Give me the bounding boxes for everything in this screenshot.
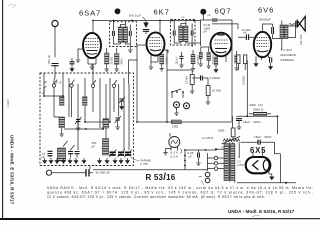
svg-text:C 765: C 765 — [140, 162, 148, 166]
6K7 internal electrodes — [150, 38, 162, 47]
output transformer T3 windings — [280, 25, 284, 39]
wave trap coil — [59, 117, 65, 128]
svg-text:UNDA - Modl. E 53/16, R 53: UNDA - Modl. E 53/16, R 53/17 — [10, 135, 15, 205]
6SA7 plate lead to bus — [92, 21, 94, 34]
svg-text:6X5: 6X5 — [250, 146, 266, 155]
svg-text:R 53/16: R 53/16 — [146, 172, 176, 183]
svg-text:µF: µF — [208, 14, 211, 17]
top B+ bus wire — [93, 20, 201, 22]
earth terminal — [46, 170, 51, 175]
svg-text:50000pF: 50000pF — [259, 17, 271, 21]
grid-cap dot of 6K7 — [115, 8, 121, 14]
variable capacitor section 3 — [125, 152, 131, 155]
antenna coil — [58, 148, 66, 161]
6X5 plate sleeve — [263, 160, 269, 171]
bypass cap near 6K7 — [180, 56, 184, 58]
screen resistor 50000 — [191, 54, 195, 63]
RF trimmer — [116, 118, 121, 120]
6V6 plate lead up — [263, 24, 273, 32]
RF coil top — [103, 119, 109, 129]
6Q7 load resistors — [214, 58, 218, 66]
T1 primary winding — [118, 27, 122, 43]
speaker cone — [296, 16, 305, 31]
T2 secondary return resistor — [199, 52, 202, 58]
svg-text:MAGNETE: MAGNETE — [281, 53, 297, 57]
resistor 1 Mohm vertical — [231, 128, 235, 137]
6Q7 grid cap connector — [218, 34, 225, 36]
power transformer TA031 windings — [224, 144, 228, 181]
svg-text:pF: pF — [204, 30, 208, 34]
pilot lamp — [169, 137, 180, 148]
switch arrows lower — [63, 141, 75, 151]
svg-text:UNDA RADIO - Mod. R 53/16 e mo: UNDA RADIO - Mod. R 53/16 e mod. R 53/17… — [47, 186, 313, 190]
6V6 screen resistor — [244, 55, 247, 64]
svg-text:I-F: I-F — [182, 17, 186, 20]
6Q7 cathode leads — [216, 56, 226, 68]
power transformer primary taps — [214, 156, 217, 159]
ground row in tuner — [43, 158, 47, 163]
svg-text:T U 304: T U 304 — [281, 48, 293, 52]
svg-text:100 pF: 100 pF — [176, 56, 179, 64]
svg-text:12 V catodo. 6X5:GT: 225 V pl.: 12 V catodo. 6X5:GT: 225 V pl., 235 V ca… — [47, 195, 265, 199]
junction dots on bus — [92, 20, 94, 22]
T2 wiring — [174, 21, 201, 48]
svg-text:[ 157 ]: [ 157 ] — [6, 99, 10, 108]
svg-text:~: ~ — [199, 175, 203, 181]
T2 tuning caps — [173, 31, 175, 36]
svg-text:UNDA - Modl. E 53/16, R 53/17: UNDA - Modl. E 53/16, R 53/17 — [228, 209, 295, 214]
svg-text:pF: pF — [92, 144, 96, 148]
B+ rail — [237, 115, 278, 117]
grid leak resistor line — [246, 60, 248, 116]
variable capacitor section 1 — [110, 152, 116, 155]
6SA7 internal electrodes — [86, 39, 99, 48]
grid-cap dot of 6Q7 — [200, 9, 206, 15]
6Q7 internal electrodes — [215, 40, 228, 44]
bottom rail — [237, 154, 296, 183]
oscillator coil — [103, 139, 109, 156]
screen resistor of 6SA7 — [115, 54, 120, 65]
svg-text:16μF - 300V: 16μF - 300V — [243, 120, 261, 124]
variable capacitor section 2 — [118, 152, 124, 155]
svg-text:50 000 pF: 50 000 pF — [96, 171, 110, 175]
link wire under coils — [64, 128, 103, 130]
T1 wiring — [114, 21, 131, 48]
IF transformer T1 shield (dashed) — [110, 22, 137, 47]
svg-text:6V6: 6V6 — [258, 5, 274, 14]
6K7 cathode leads — [151, 50, 168, 64]
svg-text:5.000pF: 5.000pF — [210, 76, 221, 80]
6V6 internal electrodes — [257, 38, 269, 47]
svg-text:3000 Ω: 3000 Ω — [253, 107, 264, 111]
svg-text:2,25Ω: 2,25Ω — [237, 164, 244, 167]
transformer core — [228, 143, 231, 182]
svg-text:6SA7: 6SA7 — [79, 9, 101, 18]
svg-text:0,5 MΩ: 0,5 MΩ — [185, 76, 188, 84]
earth blocking cap — [86, 169, 89, 177]
6K7 cathode resistor — [160, 54, 164, 64]
svg-text:1MΩ: 1MΩ — [218, 128, 224, 132]
ground under 6SA7 — [76, 57, 80, 63]
tuner section dashed enclosure — [40, 73, 134, 166]
antenna terminal — [52, 20, 58, 26]
band switch contacts — [52, 84, 55, 87]
switch riser wires — [44, 73, 129, 150]
svg-text:10 MΩ: 10 MΩ — [212, 88, 221, 92]
P hook — [43, 87, 47, 94]
grid resistor 10 Mohm — [206, 86, 210, 96]
6SA7 left grid lead — [78, 49, 83, 57]
IF transformer T2 shield (dashed) — [171, 20, 196, 46]
pickup coupling cap — [201, 76, 203, 81]
tube 6V6 envelope — [254, 32, 271, 57]
6V6 bypass cap — [270, 58, 272, 63]
svg-text:6Q7: 6Q7 — [215, 6, 232, 15]
6K7 grid top lead — [129, 45, 147, 122]
T2 secondary winding — [184, 26, 188, 42]
6X5 cathode chevron — [253, 160, 259, 170]
page bottom border line — [0, 218, 160, 220]
small padder resistors — [60, 97, 65, 106]
6X5 plate top leads — [253, 150, 263, 157]
link wires in tuner — [44, 96, 110, 122]
svg-text:2÷130 Ω: 2÷130 Ω — [202, 136, 213, 140]
feedback loop around 6Q7 — [201, 20, 233, 121]
rectifier 6X5 envelope — [246, 157, 271, 173]
page left border line — [2, 0, 4, 219]
antenna series capacitor — [52, 64, 59, 66]
6SA7 cathode leads — [88, 58, 96, 64]
svg-text:0,5MΩ: 0,5MΩ — [242, 76, 246, 85]
scratch mark — [252, 215, 260, 218]
6X5 wiring right — [269, 142, 281, 174]
AVC filter cap above box — [70, 62, 75, 64]
padding caps left — [48, 151, 53, 155]
earth wire — [52, 172, 86, 174]
T2 primary winding — [179, 26, 183, 42]
svg-text:1MΩ: 1MΩ — [172, 124, 178, 128]
faint pencil mark — [8, 5, 16, 8]
AVC line — [137, 121, 233, 123]
mains plug pins — [205, 172, 210, 177]
svg-text:300Ω: 300Ω — [120, 58, 123, 64]
svg-text:15.000: 15.000 — [110, 56, 113, 64]
loop top resistor blob — [213, 19, 218, 22]
speaker frame wiring — [288, 26, 296, 38]
cathode resistor of 6SA7 — [105, 53, 110, 64]
svg-text:PERMAN.: PERMAN. — [281, 58, 295, 62]
screen bypass cap with chassis arrow — [145, 21, 147, 23]
tube 6K7 envelope — [147, 32, 165, 55]
phono jacks — [174, 102, 180, 108]
svg-text:quenza 468 kc. 6SA7:GT = 6K7A:: quenza 468 kc. 6SA7:GT = 6K7A: 225 V pl.… — [47, 191, 313, 195]
ground at rectifier — [270, 174, 274, 179]
T1 secondary winding — [123, 27, 127, 43]
svg-text:16μF - 350V: 16μF - 350V — [254, 135, 272, 139]
svg-text:B-0.5 µF: B-0.5 µF — [130, 13, 142, 17]
svg-text:pF: pF — [244, 31, 248, 35]
volume control 0.5 Mohm — [166, 50, 168, 122]
resistor 1 Mohm — [171, 120, 181, 124]
6V6 cathode network — [260, 56, 262, 58]
tube 6SA7 envelope — [83, 33, 101, 58]
voice coil squiggle — [289, 24, 295, 26]
T1 tuning cap primary — [113, 31, 115, 36]
6V6 cathode resistor — [237, 55, 240, 64]
junction dots in tuner — [43, 95, 45, 97]
antenna trimmer — [76, 120, 81, 122]
svg-text:RE 102: RE 102 — [299, 34, 303, 44]
svg-text:6K7: 6K7 — [154, 7, 170, 16]
antenna lead wire — [54, 27, 56, 58]
6K7 plate lead — [159, 21, 161, 34]
T1 tuning cap secondary — [129, 31, 131, 36]
tube 6Q7 envelope — [211, 33, 232, 57]
svg-text:300 pF: 300 pF — [47, 55, 51, 64]
svg-text:µF: µF — [189, 155, 193, 159]
svg-text:C 2: C 2 — [56, 80, 62, 84]
svg-text:0,3 A: 0,3 A — [171, 155, 178, 159]
phono switch contacts — [171, 91, 173, 93]
